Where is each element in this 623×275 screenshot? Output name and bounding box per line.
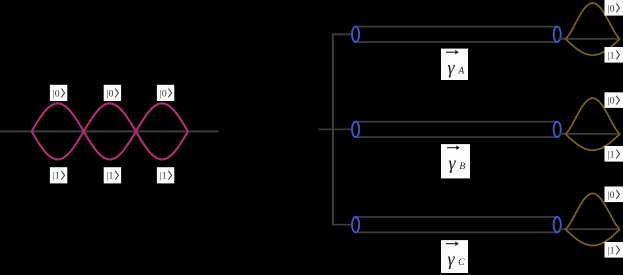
svg-text:|0: |0: [107, 88, 114, 99]
label ket1 output B: [605, 146, 623, 162]
left horizontal axis wire: [0, 130, 219, 132]
waveguide C top line: [356, 216, 558, 218]
fan-out vertical wire: [332, 34, 334, 225]
svg-text:γ: γ: [447, 58, 455, 78]
photon packet B lower envelope: [565, 134, 620, 150]
svg-text:γ: γ: [447, 249, 455, 269]
label ket0 output B: [605, 92, 623, 108]
svg-text:|0: |0: [608, 190, 615, 201]
waveguide A bottom line: [356, 41, 558, 43]
stub wire to channel C: [332, 224, 352, 226]
svg-text:|0: |0: [53, 88, 60, 99]
svg-text:|1: |1: [608, 149, 615, 160]
svg-text:|0: |0: [608, 3, 615, 14]
label gamma_C: [441, 240, 468, 273]
label ket1 output A: [605, 47, 623, 63]
waveguide B bottom line: [356, 136, 558, 138]
svg-text:|1: |1: [107, 171, 114, 182]
photon packet A lower envelope: [565, 39, 620, 55]
photon packet C lower envelope: [565, 229, 620, 245]
label ket0 left 1: [50, 85, 67, 101]
stub wire to channel B: [319, 128, 354, 130]
label ket0 output C: [605, 187, 623, 203]
waveguide A right port ellipse: [554, 27, 561, 42]
output axis wire B: [559, 133, 620, 135]
stub wire to channel A: [332, 33, 352, 35]
label ket1 left 3: [157, 167, 174, 183]
waveguide A top line: [356, 26, 558, 28]
svg-text:|0: |0: [160, 88, 167, 99]
photon packet B upper envelope: [565, 98, 620, 134]
svg-text:γ: γ: [448, 153, 456, 173]
waveguide A left port ellipse: [352, 27, 359, 42]
label gamma_B: [441, 144, 470, 178]
svg-text:C: C: [458, 258, 465, 268]
waveguide B top line: [356, 121, 558, 123]
standing wave upper curve: [32, 103, 188, 159]
svg-text:A: A: [457, 67, 464, 77]
label gamma_A: [441, 49, 468, 80]
svg-text:|1: |1: [160, 171, 167, 182]
standing wave lower curve: [32, 103, 188, 159]
waveguide B left port ellipse: [352, 122, 359, 137]
label ket0 left 2: [104, 85, 121, 101]
waveguide C left port ellipse: [352, 217, 359, 232]
svg-text:|1: |1: [608, 245, 615, 256]
svg-text:|0: |0: [608, 96, 615, 107]
waveguide B right port ellipse: [554, 122, 561, 137]
output axis wire A: [559, 38, 620, 40]
svg-text:|1: |1: [608, 50, 615, 61]
photon packet C upper envelope: [565, 194, 620, 230]
waveguide C right port ellipse: [554, 217, 561, 232]
label ket1 left 2: [104, 167, 121, 183]
label ket1 left 1: [50, 167, 67, 183]
waveguide C bottom line: [356, 231, 558, 233]
label ket0 left 3: [157, 85, 174, 101]
label ket0 output A: [605, 0, 623, 16]
svg-text:B: B: [459, 162, 465, 172]
photon packet A upper envelope: [565, 3, 620, 39]
label ket1 output C: [605, 242, 623, 258]
output axis wire C: [559, 228, 620, 230]
svg-text:|1: |1: [53, 171, 60, 182]
